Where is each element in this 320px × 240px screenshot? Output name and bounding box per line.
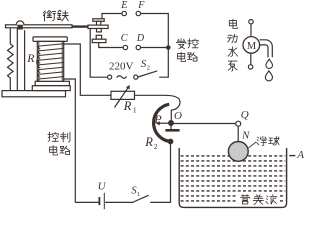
AC source terminal left [108,75,112,79]
label 浮球 [257,136,279,145]
svg-text:1: 1 [133,105,137,114]
svg-text:R: R [144,135,153,149]
S2 contact circle right [134,75,138,79]
wire R2 to S1 [150,143,170,202]
label 控制电路 [48,132,70,155]
R2 bottom terminal dot [168,139,174,145]
armature bar [6,25,73,28]
wire R1 to hook [135,94,165,96]
coil pedestal plate upper [35,81,69,85]
rheostat R1 box [111,91,135,99]
wire battery to S1 [75,201,133,203]
label 电动水泵 [227,19,237,71]
contact stack: E-wire [102,14,122,19]
terminal E [122,11,126,15]
svg-text:D: D [136,33,145,44]
spring [8,29,14,91]
leader line to fuqiu label [249,142,257,148]
svg-text:Q: Q [241,109,249,121]
water droplet 1 [266,59,273,68]
pivot knob [16,21,24,25]
svg-text:M: M [247,41,257,52]
arc resistor R2 [154,104,171,141]
switch S1 blade [133,195,148,202]
terminal D [136,45,140,49]
motor terminal top [249,20,253,24]
terminal F [136,11,140,15]
tank bottom [179,203,286,207]
junction dot [166,45,171,50]
wire stack to C [99,43,124,48]
tank left wall [178,148,180,203]
contact stack moving plate [88,25,108,28]
svg-text:R: R [123,99,132,113]
battery U long plate [103,193,105,209]
wire bus down to S2 [159,48,168,78]
float ball N [228,142,248,162]
wire moving contact to 220V [90,29,107,78]
svg-text:N: N [241,130,250,142]
motor lead top [250,24,252,37]
label 营养液 [238,194,280,206]
switch S2 blade [138,71,157,77]
battery U short plate [98,197,100,205]
J-hook wire down to pivot O [165,95,181,120]
contact stack bottom plate [92,39,106,42]
svg-text:1: 1 [137,191,140,198]
svg-text:U: U [98,181,107,193]
pump spout inner [260,45,269,57]
wire coil bottom to battery (control loop left) [64,79,76,202]
water droplet 2 [265,71,272,81]
contact stack top plate [93,19,104,22]
motor terminal bottom [248,65,252,69]
svg-text:220V: 220V [109,61,134,73]
pivot support bar [165,129,179,132]
motor circle M [243,37,260,54]
contact stack stem1 [97,21,101,25]
contact stack stem2 [97,29,102,32]
svg-text:P: P [153,112,162,126]
coil pedestal plate lower [32,86,70,91]
pivot O dot [168,120,174,126]
wire coil top to R1 corner [64,44,111,95]
base [2,91,66,97]
coil top plate [33,37,67,42]
motor lead bottom [250,53,252,64]
wiper arrow to P [160,122,169,124]
pivot support stem [170,126,172,130]
wire O to Q [174,123,236,125]
pivot black square [17,25,22,29]
wire D to junction [141,47,169,49]
svg-text:O: O [174,110,182,122]
support post [17,29,24,91]
hanger circle Q [236,121,241,126]
tank right wall [286,148,288,203]
terminal C [123,45,127,49]
coil R0 body [37,41,63,81]
tilde ~ of 220V [117,76,127,79]
label 受控电路 [176,39,198,62]
svg-text:2: 2 [154,142,158,151]
contact stack stem3 [96,35,101,39]
svg-text:R: R [26,51,35,65]
wire F to right bus [141,14,169,46]
pump spout outer [260,40,273,57]
rheostat R1 arrow [115,88,129,108]
hang line Q to ball [237,126,239,142]
svg-text:2: 2 [147,65,150,72]
svg-text:A: A [296,149,304,161]
svg-text:E: E [120,0,127,11]
label A with level dash [289,155,295,157]
label 衔铁 [43,10,68,21]
armature rod to moving plate [72,25,88,27]
nutrient liquid dashes [181,156,286,201]
svg-text:F: F [137,0,145,11]
svg-text:0: 0 [36,58,40,66]
svg-text:C: C [121,33,128,44]
